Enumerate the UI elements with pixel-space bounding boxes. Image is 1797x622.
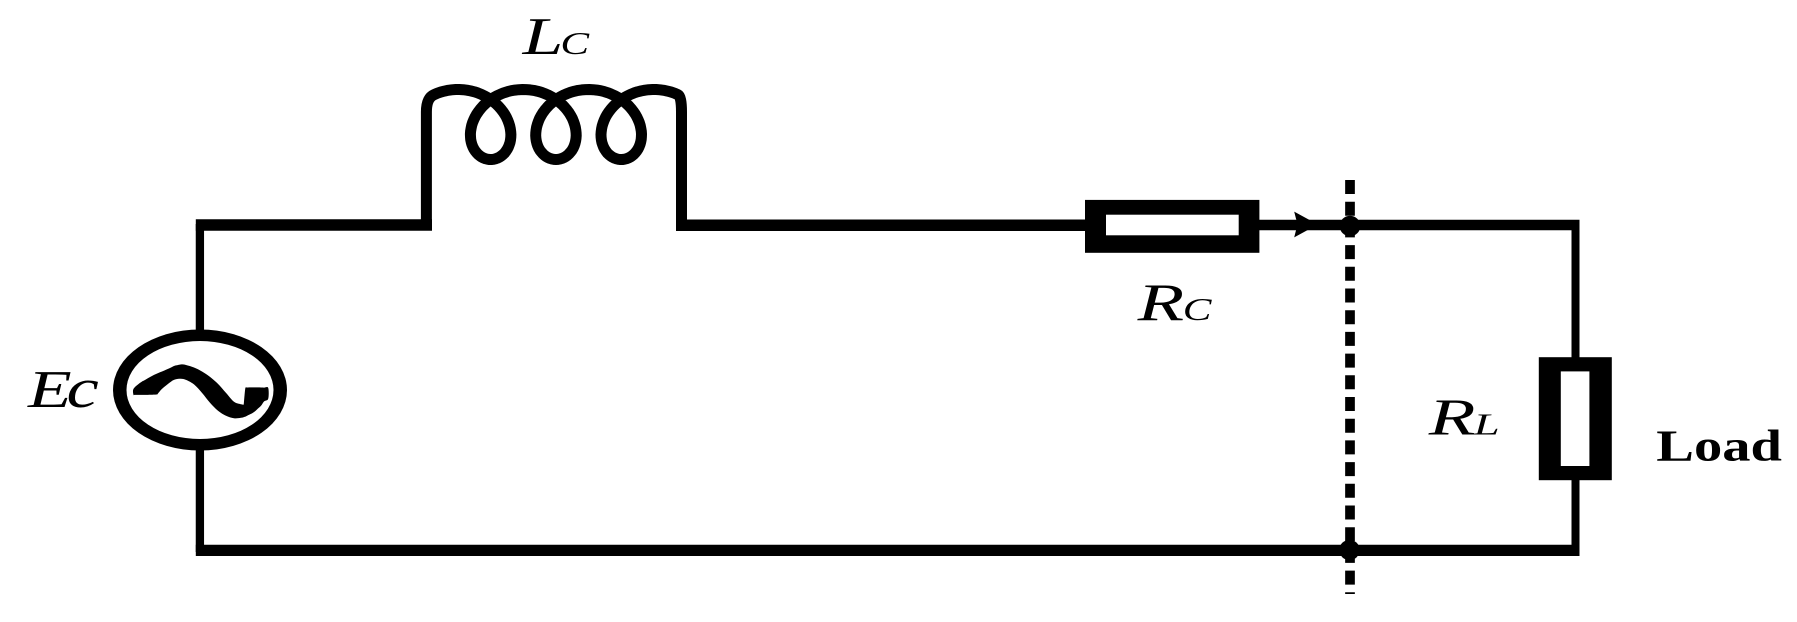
- voltage source Ec: ellipse body: [113, 330, 287, 451]
- dashed boundary line: [1345, 180, 1355, 594]
- svg-text:R: R: [1136, 274, 1184, 332]
- svg-text:R: R: [1428, 389, 1476, 446]
- voltage source Ec: sine symbol: [133, 364, 269, 418]
- svg-text:L: L: [521, 7, 563, 66]
- wire: bottom rail: [196, 545, 1580, 556]
- wire: source bottom to bottom rail: [196, 448, 204, 552]
- svg-text:c: c: [67, 358, 100, 420]
- resistor RC (series box): [1085, 200, 1259, 253]
- arrowhead (current direction into load): [1294, 212, 1318, 238]
- label RL: [1428, 389, 1500, 446]
- wire: RL bottom to bottom rail: [1572, 478, 1580, 552]
- svg-text:C: C: [1183, 293, 1213, 327]
- wire: right vertical, top rail to RL: [1572, 225, 1580, 360]
- svg-text:C: C: [560, 27, 590, 61]
- svg-text:L: L: [1473, 407, 1500, 442]
- resistor RL (load box): [1539, 357, 1612, 480]
- inductor LC coil: [426, 90, 681, 231]
- svg-text:Load: Load: [1656, 421, 1782, 470]
- label LC: [521, 7, 590, 66]
- label Ec: [27, 358, 99, 420]
- wire: resistor RC to load branch (top rail right): [1259, 220, 1580, 231]
- junction dot bottom: [1339, 540, 1359, 560]
- junction dot top: [1340, 216, 1361, 237]
- wire: inductor to resistor RC: [676, 220, 1090, 232]
- svg-text:E: E: [27, 360, 72, 419]
- wire: left vertical, corner down to source top: [196, 224, 204, 334]
- label RC: [1136, 274, 1212, 332]
- wire: top-left rail from source corner to inductor: [196, 219, 432, 231]
